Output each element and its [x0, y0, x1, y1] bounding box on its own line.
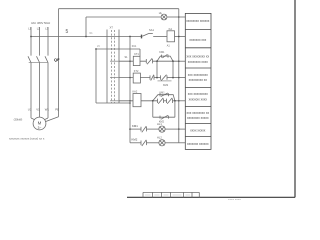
contact marks on loop D bottom [159, 116, 161, 119]
wire x96 [95, 49, 97, 103]
svg-text:KM2: KM2 [163, 84, 169, 87]
svg-text:HL1: HL1 [157, 122, 162, 126]
svg-text:xxxxxxx xxxxxx: xxxxxxx xxxxxx [187, 142, 209, 146]
svg-text:KT2: KT2 [134, 70, 139, 73]
svg-text:PE: PE [55, 107, 59, 111]
title block dividers [143, 192, 199, 197]
svg-text:3AC 380V 50Hz: 3AC 380V 50Hz [31, 21, 51, 25]
interlock loop row D top hump [153, 95, 175, 101]
strip inner links [110, 60, 119, 62]
svg-text:xxxxxxxx xxxx: xxxxxxxx xxxx [188, 60, 208, 64]
junction dots [30, 16, 180, 130]
svg-text:XT: XT [110, 26, 114, 30]
motor slant wires [31, 118, 35, 120]
svg-text:KM1: KM1 [132, 124, 138, 128]
svg-text:(30kW): (30kW) [14, 118, 23, 122]
title block cell marks [145, 194, 151, 196]
terminal strip XT [106, 30, 108, 104]
coil rect row C [133, 73, 140, 83]
svg-text:xxxxxxx xxx: xxxxxxx xxx [189, 38, 206, 42]
indicator lamp HL1 [159, 126, 165, 132]
row A feed y36.5 [31, 36, 119, 38]
delay mark under row C [158, 80, 172, 82]
wire x86 [85, 17, 87, 37]
svg-text:SA1: SA1 [149, 28, 154, 32]
svg-text:xxxxxxxx xxxxx: xxxxxxxx xxxxx [187, 116, 209, 120]
svg-text:xxx xxxxxxxxx: xxx xxxxxxxxx [188, 73, 208, 77]
svg-text:xxxx xxxx: xxxx xxxx [228, 198, 241, 200]
stubs bus to legend table [179, 16, 186, 18]
control rail 2 [86, 16, 161, 18]
svg-text:xxx xxxxxxxxx: xxx xxxxxxxxx [188, 92, 208, 96]
coil rect row B [133, 56, 140, 65]
breaker QF pole contacts [28, 56, 31, 62]
breaker linkage [29, 61, 48, 63]
frame right border [294, 0, 296, 197]
row B y61.2 [119, 60, 146, 62]
contact on hump top [161, 55, 163, 58]
title block top line [143, 191, 199, 193]
svg-text:KT1: KT1 [134, 53, 139, 56]
row C y77.6 [119, 77, 150, 79]
phase line L2 [39, 27, 41, 56]
svg-text:xxxxxxxx xxxxxx: xxxxxxxx xxxxxx [186, 19, 210, 23]
svg-text:W1: W1 [45, 107, 50, 111]
motor M circle [33, 117, 46, 130]
svg-text:xxx xxxxxxxx xx: xxx xxxxxxxx xx [187, 54, 210, 58]
svg-text:xxxxxxxxx xx: xxxxxxxxx xx [189, 78, 208, 82]
legend table texts [186, 19, 210, 146]
svg-text:FU1: FU1 [132, 45, 137, 48]
lamp row F y142.8 [130, 142, 141, 144]
row D y100.8 [119, 100, 158, 102]
phase line L3 [47, 27, 49, 56]
svg-text:xxxx xxxxx: xxxx xxxxx [190, 128, 206, 132]
svg-text:KM1: KM1 [160, 91, 166, 94]
seal-in hump rows B-C [157, 56, 173, 61]
svg-text:QF: QF [54, 57, 60, 62]
svg-text:KM2: KM2 [132, 137, 138, 141]
svg-text:xxxxxxx xxxxxx (xxxx) xx x: xxxxxxx xxxxxx (xxxx) xx x [9, 136, 45, 140]
svg-text:3~: 3~ [38, 126, 42, 130]
svg-text:M: M [38, 121, 42, 126]
left bus x130 [129, 37, 131, 143]
svg-text:HL2: HL2 [157, 136, 162, 140]
svg-text:V1: V1 [36, 107, 40, 111]
svg-text:KA: KA [169, 27, 173, 31]
frame bottom line [127, 196, 295, 198]
svg-text:5: 5 [66, 29, 69, 35]
svg-text:xxxxxxx xxxx: xxxxxxx xxxx [189, 98, 208, 102]
right bus [178, 9, 180, 143]
svg-text:KA2: KA2 [133, 91, 138, 94]
indicator lamp HL2 [159, 140, 165, 146]
svg-text:HL: HL [159, 11, 163, 15]
power indicator lamp HL [161, 14, 167, 20]
PE line [58, 9, 60, 117]
contact marks on loop D top [159, 93, 161, 96]
top rail [59, 8, 179, 10]
svg-text:U1: U1 [28, 107, 32, 111]
legend table [185, 13, 211, 149]
phase line L1 [30, 27, 32, 56]
switch contact row A [141, 35, 143, 39]
wire y49 [96, 48, 140, 50]
svg-text:xxx xxxxxxxx xx: xxx xxxxxxxx xx [187, 111, 210, 115]
coil rect row D [133, 94, 141, 107]
wire y103 [96, 102, 130, 104]
coil rect row A [167, 31, 175, 42]
svg-text:KM1: KM1 [159, 51, 165, 54]
lamp row E y129.1 [130, 128, 141, 130]
